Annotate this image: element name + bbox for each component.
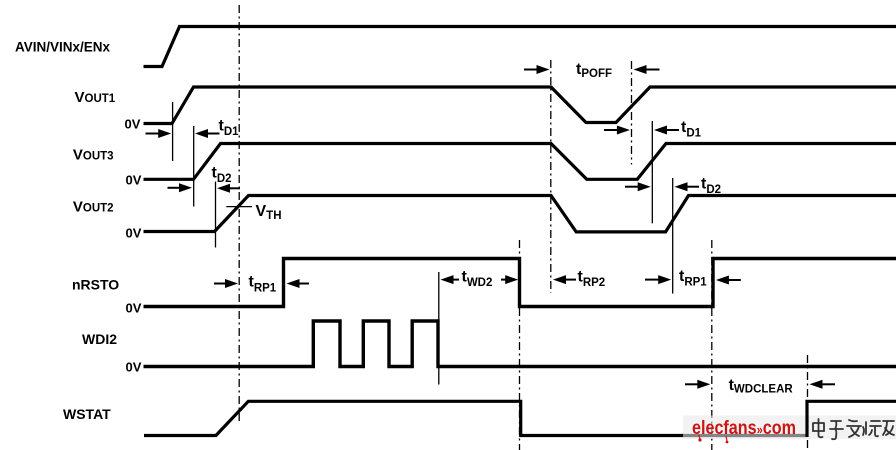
node: reset release dashed line x=711.8 — [711, 240, 713, 450]
arrow: tD2 right-side left-pointing — [675, 182, 688, 191]
svg-text:0V: 0V — [125, 117, 141, 132]
signal VOUT1 waveform — [144, 87, 896, 124]
svg-text:elecfans»com: elecfans»com — [692, 418, 796, 439]
node: tick x=193.7 (VOUT3 rise start / tD1 end) — [193, 126, 195, 207]
node: tPOFF end dashed line x=631.5 — [631, 61, 633, 165]
watermark background box — [683, 416, 896, 440]
node: tick x=172.6 (VOUT1 rise start) — [172, 102, 174, 161]
svg-text:0V: 0V — [126, 173, 142, 188]
arrow: tD1 left-pointing — [195, 129, 208, 138]
arrow: tD2 right-side right-pointing — [625, 186, 639, 188]
node: tick x=438.8 (last WDI2 pulse / tWD2 start) — [438, 272, 440, 385]
signal AVIN/VINx/ENx waveform — [144, 27, 896, 67]
signal WSTAT waveform (clear step and high portion) — [807, 401, 896, 437]
arrow: tRP1 left-pointing — [287, 279, 300, 288]
arrow: tPOFF left-pointing — [634, 65, 647, 74]
arrow: tD2 left-pointing — [217, 184, 230, 193]
arrow: tWDCLEAR left-pointing — [810, 380, 823, 389]
arrow: tRP2 left-pointing — [553, 275, 566, 284]
signal WSTAT waveform (low portion) — [144, 401, 807, 435]
arrow: nRSTO tRP1 right-pointing — [214, 283, 226, 285]
watermark chinese characters 电子发烧友 (hand drawn strokes) — [813, 419, 894, 439]
svg-text:0V: 0V — [126, 301, 142, 316]
node: tick x=672.7 (VOUT2 re-rise / tD2 right end) — [672, 178, 674, 294]
signal VOUT3 waveform — [144, 144, 896, 180]
node: watchdog fault dashed line x=519.5 — [519, 240, 521, 450]
signal VOUT2 waveform — [144, 196, 896, 232]
node: power-off start dashed line x=551 — [550, 60, 552, 293]
node: power-good reference dashed line x=239 — [238, 5, 240, 422]
signal nRSTO waveform — [144, 259, 896, 307]
svg-text:0V: 0V — [126, 360, 142, 375]
arrow: tPOFF right-pointing — [524, 69, 538, 71]
arrow: tWDCLEAR right-pointing — [685, 383, 699, 385]
arrow: tWD2 left-pointing — [441, 275, 454, 284]
arrow: tD1 right-side left-pointing — [654, 126, 667, 135]
node: VTH threshold cross tick — [226, 206, 252, 208]
arrow: VOUT1 rise delay right-pointing — [146, 133, 161, 135]
arrow: tWD2 right-pointing — [501, 279, 507, 281]
arrow: VOUT3 rise delay right-pointing — [168, 187, 181, 189]
signal WDI2 waveform — [144, 321, 896, 367]
watermark drip marks — [698, 438, 701, 441]
svg-text:WDI2: WDI2 — [82, 331, 117, 347]
arrow: tRP2 right-pointing — [645, 279, 659, 281]
arrow: tD1 right-side right-pointing — [604, 129, 618, 131]
svg-text:nRSTO: nRSTO — [72, 277, 119, 293]
node: wdclear end dashed line x=807.5 — [807, 355, 809, 450]
svg-text:0V: 0V — [126, 226, 142, 241]
svg-text:AVIN/VINx/ENx: AVIN/VINx/ENx — [15, 40, 111, 55]
arrow: tRP1 right-side left-pointing — [716, 276, 729, 285]
svg-text:WSTAT: WSTAT — [63, 406, 111, 422]
node: tick x=652.3 (VOUT3 re-rise / tD1 right end) — [651, 121, 653, 223]
node: tick x=215.5 (VOUT2 rise start / tD2 end) — [215, 182, 217, 248]
